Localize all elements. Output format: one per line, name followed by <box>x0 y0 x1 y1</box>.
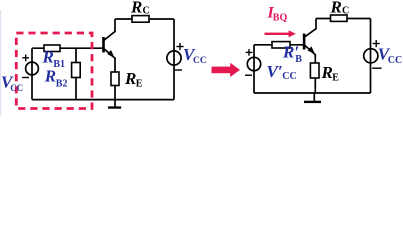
svg-text:C: C <box>342 6 349 17</box>
svg-text:BQ: BQ <box>273 13 288 24</box>
svg-text:CC: CC <box>388 55 402 66</box>
svg-text:B: B <box>295 54 302 65</box>
svg-text:R: R <box>42 48 54 67</box>
svg-text:V′: V′ <box>267 62 283 81</box>
svg-text:E: E <box>136 79 143 90</box>
svg-text:CC: CC <box>282 71 296 82</box>
svg-text:C: C <box>143 6 150 17</box>
svg-text:R: R <box>130 0 142 17</box>
svg-text:CC: CC <box>193 56 207 66</box>
svg-text:B1: B1 <box>53 59 65 70</box>
svg-text:R: R <box>330 0 342 17</box>
svg-text:B2: B2 <box>56 79 68 90</box>
svg-text:CC: CC <box>10 83 23 93</box>
svg-text:R: R <box>321 63 333 82</box>
svg-text:E: E <box>332 73 339 84</box>
svg-text:R: R <box>124 69 136 88</box>
